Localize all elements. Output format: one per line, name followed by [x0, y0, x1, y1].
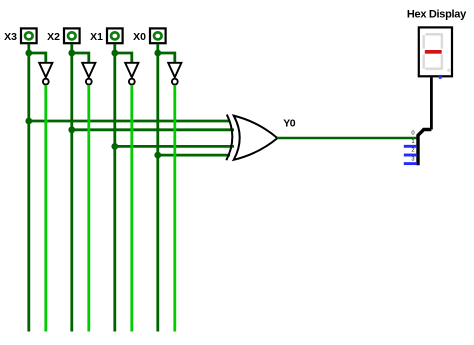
wire NOT X3 output vertical	[44, 85, 47, 332]
junction X2 to horizontal	[68, 126, 75, 133]
inverter (NOT gate) on X1	[125, 63, 138, 85]
input pin X2	[64, 28, 80, 43]
wire NOT X0 output vertical	[173, 85, 176, 332]
svg-text:2: 2	[411, 148, 414, 154]
label Y0	[283, 118, 296, 130]
wire X1 to XOR input 3	[115, 145, 234, 148]
wire X3 vertical	[27, 53, 30, 332]
wire X3 to XOR input 1	[29, 120, 230, 123]
XOR gate	[226, 115, 277, 161]
svg-text:X0: X0	[133, 31, 146, 43]
wire X1 vertical	[113, 53, 116, 332]
wire X3 branch to inverter	[29, 53, 46, 62]
wire NOT X1 output vertical	[130, 85, 133, 332]
label X0	[133, 31, 146, 43]
junction X3 to horizontal	[25, 118, 32, 125]
junction at X3 branch	[25, 50, 32, 57]
wire bus splitter to hex display	[430, 77, 433, 129]
wire X2 to XOR input 2	[72, 128, 234, 131]
svg-text:3: 3	[411, 156, 414, 162]
svg-text:1: 1	[411, 139, 414, 145]
wire X1 branch to inverter	[115, 53, 132, 62]
svg-text:X2: X2	[47, 31, 60, 43]
inverter (NOT gate) on X2	[82, 63, 95, 85]
wire X2 branch to inverter	[72, 53, 89, 62]
junction at X0 branch	[154, 50, 161, 57]
junction at X2 branch	[68, 50, 75, 57]
junction at X1 branch	[111, 50, 118, 57]
wire X0 vertical	[156, 53, 159, 332]
input pin X3	[21, 28, 37, 43]
input pin X0	[150, 28, 166, 43]
svg-text:X3: X3	[4, 31, 17, 43]
svg-text:0: 0	[411, 130, 414, 136]
svg-text:Hex Display: Hex Display	[407, 8, 467, 20]
wire X0 branch to inverter	[158, 53, 175, 62]
junction X0 to horizontal	[154, 152, 161, 159]
wire NOT X2 output vertical	[87, 85, 90, 332]
wire X2 vertical	[70, 53, 73, 332]
label X2	[47, 31, 60, 43]
hex display	[419, 27, 452, 78]
wire pin X0 stub	[156, 44, 159, 53]
junction X1 to horizontal	[111, 143, 118, 150]
svg-text:Y0: Y0	[283, 118, 296, 130]
label Hex Display	[407, 8, 467, 20]
label X1	[90, 31, 103, 43]
wire pin X2 stub	[70, 44, 73, 53]
inverter (NOT gate) on X0	[168, 63, 181, 85]
svg-text:X1: X1	[90, 31, 103, 43]
wire Y0 output to splitter	[277, 137, 417, 140]
wire X0 to XOR input 4	[158, 154, 230, 157]
wire pin X1 stub	[113, 44, 116, 53]
splitter	[404, 130, 432, 166]
inverter (NOT gate) on X3	[39, 63, 52, 85]
wire pin X3 stub	[27, 44, 30, 53]
label X3	[4, 31, 17, 43]
input pin X1	[107, 28, 123, 43]
